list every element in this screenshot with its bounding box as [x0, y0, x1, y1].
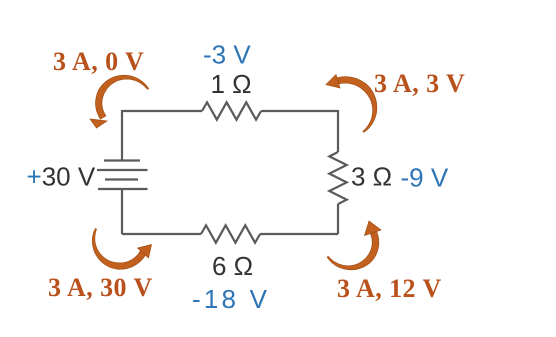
svg-text:3 Ω: 3 Ω	[351, 162, 392, 192]
svg-text:-3 V: -3 V	[203, 40, 251, 70]
wire left vertical upper segment (to battery top)	[121, 110, 123, 160]
svg-text:3 A, 0 V: 3 A, 0 V	[53, 47, 144, 76]
svg-text:3 A, 30 V: 3 A, 30 V	[48, 273, 153, 302]
label 3A 3V (top-right)	[374, 69, 465, 98]
svg-text:3 A, 12 V: 3 A, 12 V	[337, 274, 442, 303]
label 3A 0V (top-left)	[53, 47, 144, 76]
label 6 ohm value	[212, 251, 253, 281]
wire bottom-right horizontal segment	[260, 233, 338, 235]
resistor R3 6 ohm (bottom)	[201, 225, 260, 242]
label 1 ohm value	[211, 69, 252, 99]
resistor R2 3 ohm (right)	[329, 152, 346, 204]
wire right vertical lower segment	[337, 204, 339, 234]
svg-text:6 Ω: 6 Ω	[212, 251, 253, 281]
label -3V (top, blue)	[203, 40, 251, 70]
label -9V (right, blue)	[401, 163, 449, 193]
battery V1 30V plates	[97, 161, 148, 190]
svg-text:1 Ω: 1 Ω	[211, 69, 252, 99]
label 3A 30V (bottom-left)	[48, 273, 153, 302]
current arrow top-right (3A, 3V loop arrow)	[326, 75, 377, 133]
label +30V (battery value)	[27, 162, 96, 192]
current arrow bottom-right (3A, 12V loop arrow)	[327, 221, 381, 270]
label -18V (bottom, blue)	[192, 284, 270, 314]
svg-text:+30 V: +30 V	[27, 162, 96, 192]
wire top-right horizontal segment	[261, 110, 338, 112]
wire right vertical upper segment	[337, 110, 339, 152]
current arrow top-left (3A, 0V loop arrow)	[90, 75, 149, 128]
label 3 ohm value	[351, 162, 392, 192]
svg-text:-18 V: -18 V	[192, 284, 270, 314]
wire top-left horizontal segment	[122, 110, 202, 112]
current arrow bottom-left (3A, 30V loop arrow)	[92, 229, 151, 270]
wire bottom-left horizontal segment	[122, 233, 201, 235]
svg-text:3 A, 3 V: 3 A, 3 V	[374, 69, 465, 98]
resistor R1 1 ohm (top)	[202, 102, 261, 119]
wire left vertical lower segment (from battery bottom)	[121, 189, 123, 234]
svg-text:-9 V: -9 V	[401, 163, 449, 193]
label 3A 12V (bottom-right)	[337, 274, 442, 303]
